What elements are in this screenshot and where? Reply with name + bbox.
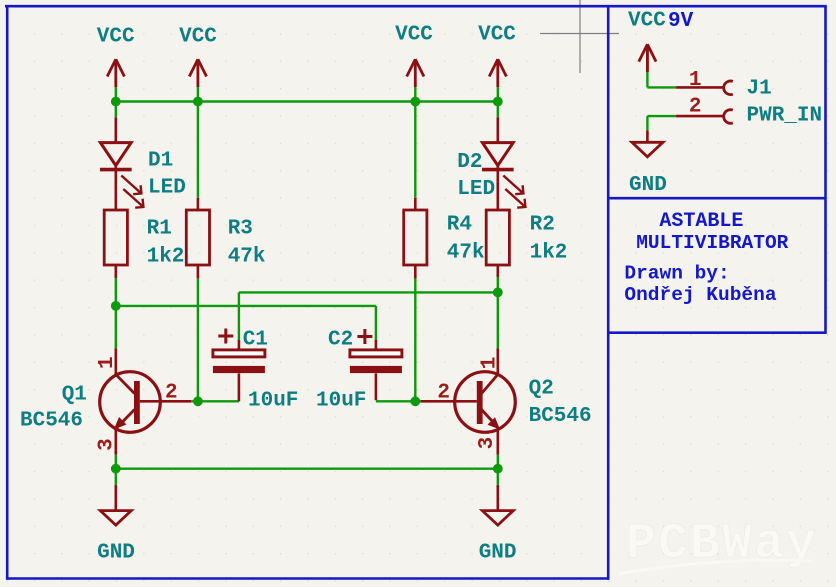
- svg-text:GND: GND: [629, 174, 667, 197]
- svg-text:1: 1: [478, 357, 501, 370]
- resistor R3: [186, 210, 209, 265]
- wire cross-couple B vertical to C2: [375, 306, 377, 340]
- svg-text:D1: D1: [148, 150, 173, 173]
- pin wire C2 top pin: [375, 340, 378, 350]
- svg-text:1: 1: [96, 356, 119, 369]
- svg-text:Drawn by:: Drawn by:: [624, 263, 729, 285]
- svg-text:LED: LED: [148, 177, 186, 200]
- pin wire R1 bottom pin: [115, 265, 118, 278]
- svg-text:1: 1: [689, 69, 702, 92]
- pin wire D2 cathode to R2: [496, 166, 499, 211]
- VCC symbol 2: [189, 59, 206, 87]
- pin wire R3 top pin: [197, 198, 200, 210]
- pin wire PWR VCC stem: [646, 44, 649, 70]
- svg-text:GND: GND: [97, 542, 135, 565]
- svg-text:3: 3: [95, 438, 118, 451]
- svg-text:BC546: BC546: [20, 410, 83, 433]
- svg-text:Q1: Q1: [62, 384, 87, 407]
- GND symbol left: [100, 511, 131, 525]
- svg-text:10uF: 10uF: [248, 390, 298, 413]
- wire Q1 emitter to GND: [115, 455, 117, 485]
- wire Q1 base node: [191, 400, 239, 402]
- pin wire GND1 stem: [115, 485, 118, 511]
- transistor Q1: [100, 372, 161, 433]
- svg-text:10uF: 10uF: [316, 390, 366, 413]
- pin wire D2 anode pin: [496, 117, 499, 142]
- resistor R1: [104, 210, 127, 265]
- svg-text:2: 2: [689, 96, 702, 119]
- svg-text:VCC: VCC: [628, 10, 666, 33]
- pin wire PWR GND stem: [646, 130, 649, 142]
- svg-text:R4: R4: [447, 214, 472, 237]
- junction node 3: [410, 97, 420, 107]
- svg-text:VCC: VCC: [97, 26, 135, 49]
- wire cross-couple A vertical to C1: [238, 292, 240, 340]
- svg-text:1k2: 1k2: [147, 246, 185, 269]
- junction node 4: [493, 97, 503, 107]
- svg-text:9V: 9V: [668, 10, 694, 33]
- pin wire GND2 stem: [496, 485, 499, 511]
- svg-text:J1: J1: [747, 78, 772, 101]
- svg-text:1k2: 1k2: [530, 242, 568, 265]
- VCC symbol 3: [407, 59, 424, 87]
- svg-text:VCC: VCC: [179, 26, 217, 49]
- wire VCC4 stem: [497, 87, 499, 117]
- svg-text:C2: C2: [328, 329, 353, 352]
- svg-text:MULTIVIBRATOR: MULTIVIBRATOR: [636, 232, 788, 254]
- pin wire C1 bottom pin: [238, 373, 241, 401]
- svg-text:PCBWay: PCBWay: [626, 516, 818, 573]
- C2 plus sign: [357, 329, 372, 344]
- pin wire D1 cathode to R1: [115, 166, 118, 211]
- svg-text:3: 3: [476, 437, 499, 450]
- junction node 2: [193, 97, 203, 107]
- wire R3 bottom to Q1 base: [197, 278, 199, 401]
- wire VCC2 stem to R3: [197, 87, 199, 198]
- pin wire C2 bottom pin: [375, 373, 378, 400]
- svg-text:C1: C1: [243, 329, 268, 352]
- svg-text:R2: R2: [530, 214, 555, 237]
- svg-text:R3: R3: [228, 218, 253, 241]
- junction node 10: [493, 464, 503, 474]
- wire Q2 base node: [376, 400, 421, 402]
- LED D1: [100, 143, 143, 208]
- C1 plus sign: [218, 329, 233, 344]
- pin wire Q2 collector pin: [496, 349, 499, 375]
- VCC symbol 1: [107, 59, 124, 87]
- junction node 1: [111, 97, 121, 107]
- svg-text:2: 2: [437, 382, 450, 405]
- resistor R4: [404, 210, 427, 265]
- wire emitter bottom bus: [116, 468, 498, 470]
- junction node 7: [193, 396, 203, 406]
- junction node 6: [493, 288, 503, 298]
- junction node 8: [410, 396, 420, 406]
- pin wire Q2 base pin: [421, 400, 477, 403]
- svg-text:ASTABLE: ASTABLE: [659, 210, 743, 233]
- LED D2: [482, 143, 525, 208]
- capacitor C1: [213, 350, 265, 373]
- svg-text:2: 2: [165, 382, 178, 405]
- wire J1 pin2 horizontal: [647, 115, 676, 117]
- wire J1 pin2 to GND: [646, 116, 648, 130]
- svg-text:Ondřej Kuběna: Ondřej Kuběna: [624, 284, 776, 306]
- VCC symbol power input: [639, 44, 656, 72]
- svg-text:LED: LED: [457, 178, 495, 201]
- pin wire R4 top pin: [414, 198, 417, 210]
- svg-text:Q2: Q2: [529, 378, 554, 401]
- wire J1 pin1 horizontal: [647, 86, 676, 88]
- GND symbol power input: [632, 142, 663, 157]
- capacitor C2: [350, 350, 402, 373]
- wire R1 bottom to Q1 collector: [115, 278, 117, 349]
- svg-text:D2: D2: [457, 151, 482, 174]
- pin wire R2 bottom pin: [496, 265, 499, 277]
- cursor crosshair: [540, 0, 619, 73]
- junction node 5: [111, 301, 121, 311]
- svg-text:GND: GND: [479, 542, 517, 565]
- pin wire J1 pin2 wire: [676, 115, 724, 118]
- svg-text:BC546: BC546: [529, 405, 592, 428]
- pin wire Q1 emitter pin: [115, 429, 118, 455]
- svg-text:PWR_IN: PWR_IN: [747, 105, 823, 128]
- pin wire R4 bottom pin: [414, 265, 417, 278]
- junction node 9: [111, 464, 121, 474]
- wire VCC1 stem: [115, 87, 117, 117]
- wire R2 bottom to Q2 collector: [497, 277, 499, 349]
- svg-text:47k: 47k: [447, 242, 485, 265]
- svg-text:47k: 47k: [228, 246, 266, 269]
- pin wire Q2 emitter pin: [496, 429, 499, 455]
- wire Q2 emitter to GND: [497, 455, 499, 485]
- resistor R2: [486, 210, 509, 265]
- transistor Q2: [455, 372, 516, 433]
- pin wire D1 anode pin: [115, 117, 118, 142]
- pin wire R3 bottom pin: [197, 265, 200, 278]
- pin wire Q1 collector pin: [115, 349, 118, 375]
- pin wire Q1 base pin: [140, 400, 192, 403]
- svg-text:VCC: VCC: [478, 24, 516, 47]
- VCC symbol 4: [489, 59, 506, 87]
- wire VCC3 stem to R4: [414, 87, 416, 198]
- pin wire J1 pin1 wire: [676, 86, 724, 89]
- wire cross-couple B horizontal: [116, 305, 376, 307]
- pin wire C1 top pin: [238, 340, 241, 350]
- PCBWay watermark: [618, 516, 818, 574]
- wire cross-couple A horizontal: [239, 291, 498, 293]
- GND symbol right: [482, 511, 513, 525]
- wire J1 pin1 vertical: [646, 71, 648, 88]
- svg-text:R1: R1: [147, 218, 172, 241]
- wire R4 bottom to Q2 base: [414, 278, 416, 401]
- svg-text:VCC: VCC: [395, 24, 433, 47]
- wire top VCC bus: [116, 100, 498, 102]
- connector J1 pin sockets: [724, 81, 733, 123]
